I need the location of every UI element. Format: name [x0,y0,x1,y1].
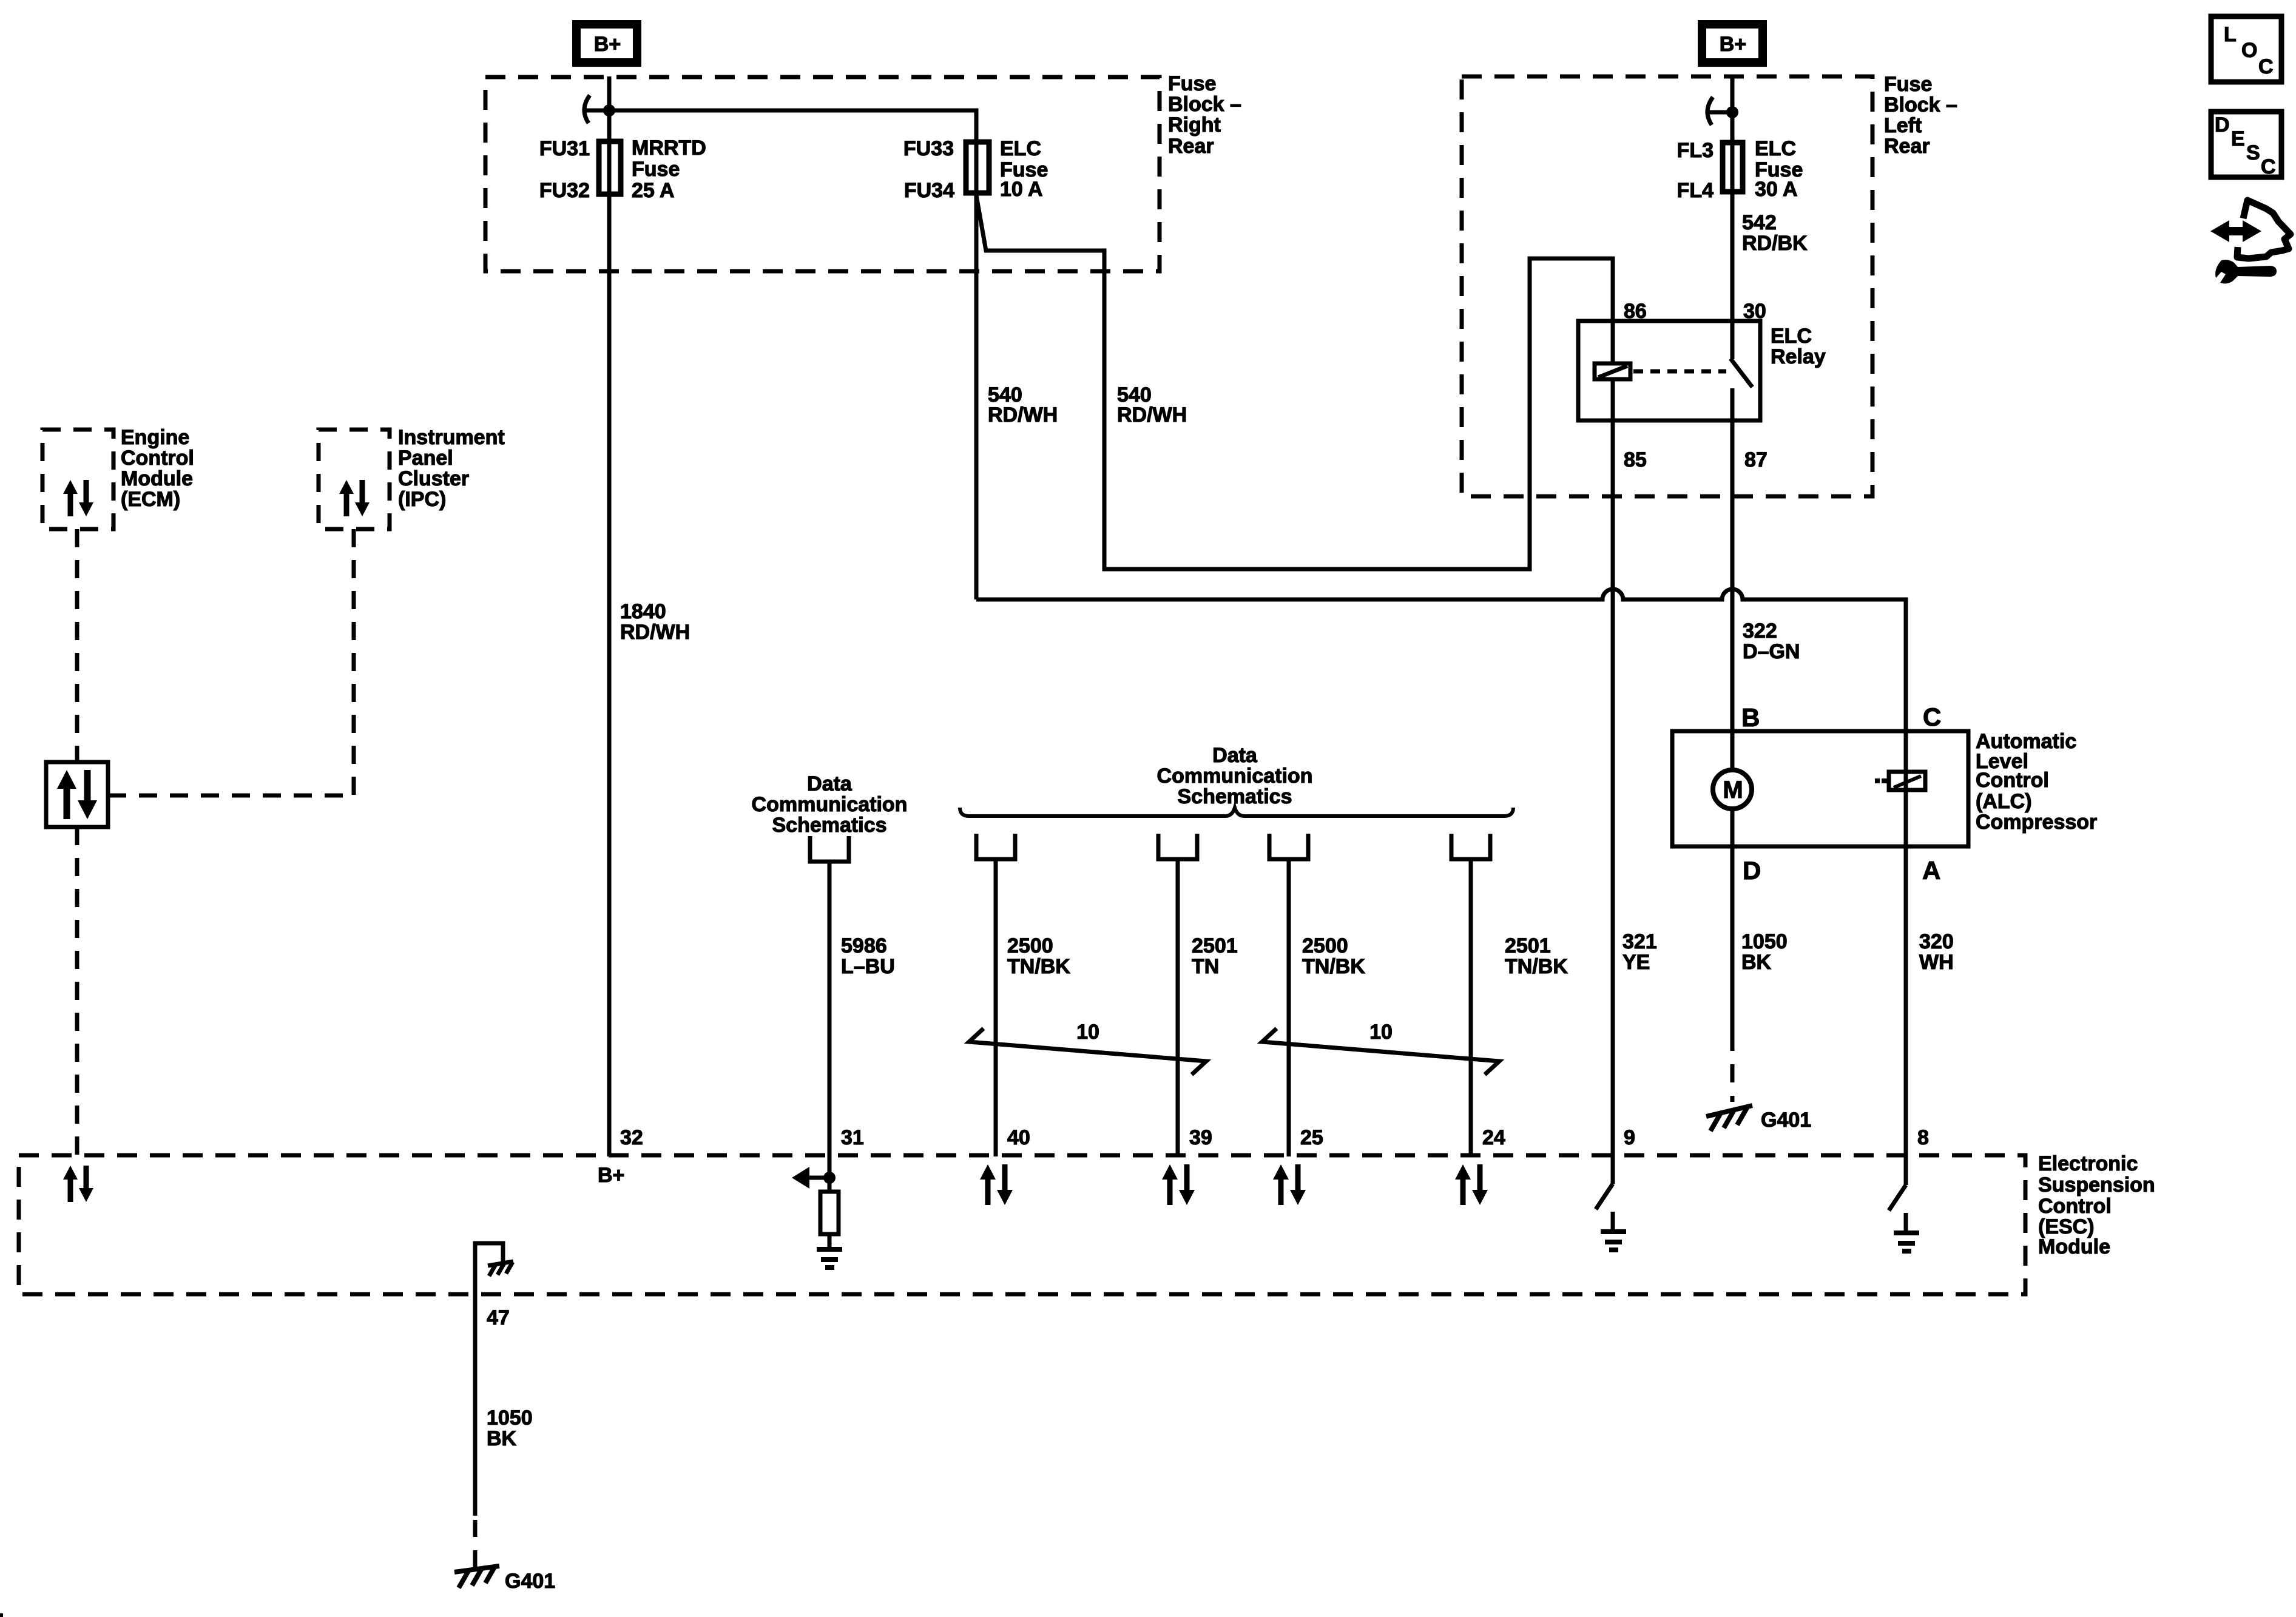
ESC module dashed box [19,1155,2025,1294]
svg-text:B+: B+ [1720,33,1746,56]
svg-text:G401: G401 [505,1570,555,1593]
label: Instrument Panel Cluster (IPC) [398,426,505,511]
svg-text:542: 542 [1742,211,1777,234]
svg-text:RD/WH: RD/WH [1117,403,1187,427]
svg-text:2500: 2500 [1007,934,1053,957]
dashed wire: IPC down [352,529,356,795]
wire: branch from splice to FU33 [609,110,976,141]
svg-text:BK: BK [1741,951,1772,974]
switch to ground at pin 8 [1889,1185,1919,1251]
svg-text:Block –: Block – [1168,93,1241,116]
off-page connector wire 24 [1451,834,1490,859]
svg-text:Suspension: Suspension [2038,1173,2155,1197]
bus marker 10 wires (left) [969,1021,1206,1075]
svg-text:Instrument: Instrument [398,426,505,449]
svg-text:Panel: Panel [398,447,453,470]
svg-text:FU32: FU32 [539,179,590,202]
motor M inside compressor [1713,770,1752,809]
off-page connector wire 40 [976,834,1015,859]
wire: 320 WH from solenoid A down to ESC pin 8 [1904,792,1908,1185]
scan speck bottom-left corner [0,1613,3,1617]
svg-text:B+: B+ [594,33,621,56]
svg-text:Control: Control [1976,769,2049,792]
serial data arrows inside ESC at pin 40 [980,1164,1013,1205]
svg-text:FL4: FL4 [1677,179,1714,202]
label: Fuse Block - Left Rear [1884,73,1957,158]
label: 2500 TN/BK (2nd) [1302,934,1365,978]
svg-text:47: 47 [487,1306,510,1329]
svg-text:Rear: Rear [1168,135,1214,158]
wire: 322 D-GN from relay 87 down to compressor pin B [1730,388,1735,769]
wire: 321 YE from relay 85 down to ESC pin 9 [1611,420,1615,1184]
label: 322 D-GN [1743,619,1800,663]
relay switch blade 30-87 [1730,359,1752,387]
svg-text:Right: Right [1168,113,1221,137]
serial data junction node box [46,762,108,827]
fuse FU31/FU32 MRRTD Fuse 25 A [539,137,706,202]
serial data arrows inside ESC at pin 25 [1273,1164,1306,1205]
serial data arrows inside ESC at pin 24 [1455,1164,1488,1205]
IPC dashed box [319,430,390,529]
svg-text:L: L [2224,23,2237,46]
svg-text:1050: 1050 [487,1406,533,1430]
svg-text:25 A: 25 A [632,179,675,202]
label: Automatic Level Control (ALC) Compressor [1976,730,2097,834]
dashed wire: ECM to junction node [75,529,79,762]
svg-text:TN/BK: TN/BK [1505,955,1568,978]
svg-text:L–BU: L–BU [841,955,895,978]
wire: 540 RD/WH branch from FU34 to relay coil 86 [976,195,1613,569]
serial data arrows in ECM [63,480,93,516]
svg-text:D: D [2215,113,2230,137]
wire: 540 RD/WH from FU34 straight down to long horizontal [974,195,979,599]
dashed wire: horizontal into junction node [108,794,354,798]
svg-text:9: 9 [1624,1126,1635,1149]
label: 540 RD/WH (left) [988,383,1058,427]
switch to ground at pin 9 [1596,1184,1626,1250]
label: Data Communication Schematics (left) [752,772,908,837]
svg-text:10: 10 [1369,1021,1393,1044]
svg-text:2501: 2501 [1192,934,1238,957]
ECM dashed box [42,430,113,529]
brace over data communication wires [960,808,1513,816]
svg-text:Fuse: Fuse [1884,73,1932,96]
svg-text:25: 25 [1300,1126,1323,1149]
label: Engine Control Module (ECM) [121,426,194,511]
power symbol B+ (right battery feed) [1702,24,1763,62]
svg-text:O: O [2241,39,2257,62]
svg-text:10 A: 10 A [1000,178,1043,201]
svg-text:8: 8 [1917,1126,1929,1149]
svg-text:31: 31 [841,1126,864,1149]
bus marker 10 wires (right) [1262,1021,1499,1075]
resistor inside ESC on pin 31 [820,1192,839,1247]
svg-text:ELC: ELC [1771,325,1812,348]
label: 540 RD/WH (right) [1117,383,1187,427]
svg-text:FL3: FL3 [1677,139,1714,162]
relay coil [1595,321,1630,420]
svg-text:322: 322 [1743,619,1777,643]
svg-text:10: 10 [1076,1021,1099,1044]
svg-text:G401: G401 [1761,1109,1811,1132]
wire: 1050 BK from motor D to ground G401 [1730,809,1735,1102]
svg-text:B+: B+ [598,1164,624,1187]
wire: left B+ down to fuse FU31 [607,76,612,141]
wire: long horizontal 540 RD/WH to compressor pin C with hops [976,589,1906,772]
svg-text:RD/WH: RD/WH [620,621,690,644]
svg-text:30: 30 [1743,300,1766,323]
label: 1840 RD/WH [620,600,690,644]
svg-text:M: M [1723,777,1743,803]
svg-text:FU31: FU31 [539,137,590,160]
off-page connector for wire 31 [810,836,849,862]
svg-text:Relay: Relay [1771,345,1826,368]
svg-text:RD/BK: RD/BK [1742,232,1808,255]
svg-text:ELC: ELC [1755,137,1796,160]
internal chassis ground at pin 47 [475,1243,513,1294]
solenoid inside compressor [1875,769,1925,792]
ground G401 at compressor [1706,1106,1811,1132]
svg-text:1840: 1840 [620,600,666,623]
off-page connector wire 25 [1269,834,1308,859]
svg-text:FU34: FU34 [904,179,954,202]
bus output arrow at pin 31 [792,1167,836,1189]
svg-text:ELC: ELC [1000,137,1041,160]
svg-text:40: 40 [1007,1126,1030,1149]
splice symbol at right B+ feed [1707,97,1738,125]
wire: 1840 RD/WH from FU32 down to ESC pin 32 [607,197,612,1156]
splice symbol at left B+ feed [584,95,615,123]
fuse FL3/FL4 ELC Fuse 30 A [1677,137,1803,202]
fuse FU33/FU34 ELC Fuse 10 A [903,137,1048,202]
label: 2501 TN [1192,934,1238,978]
power symbol B+ (left battery feed) [576,24,637,62]
svg-text:85: 85 [1624,448,1647,471]
svg-text:MRRTD: MRRTD [632,137,706,160]
serial data arrows inside ESC at ECM wire [63,1166,93,1202]
svg-text:Block –: Block – [1884,93,1957,116]
svg-text:Module: Module [2038,1235,2110,1258]
svg-text:Module: Module [121,467,193,490]
svg-text:1050: 1050 [1741,930,1788,953]
label: 321 YE [1622,930,1657,974]
serial data arrows in IPC [339,480,370,516]
svg-text:2501: 2501 [1505,934,1551,957]
svg-text:A: A [1922,856,1940,885]
svg-text:BK: BK [487,1427,517,1450]
label: 320 WH [1919,930,1954,974]
wire: 5986 L-BU down to ESC pin 31 [828,862,832,1192]
svg-text:39: 39 [1189,1126,1212,1149]
svg-text:Data: Data [807,772,853,795]
svg-text:320: 320 [1919,930,1954,953]
relay actuating dashed link [1633,370,1726,374]
svg-text:Communication: Communication [1157,765,1313,788]
ground (internal) under resistor [817,1249,842,1268]
label: 5986 L-BU [841,934,895,978]
svg-text:E: E [2231,127,2245,150]
fuse block right rear dashed box [485,77,1160,271]
svg-text:Rear: Rear [1884,135,1930,158]
svg-text:321: 321 [1622,930,1657,953]
wire: 2500 TN/BK to ESC pin 25 [1287,859,1291,1156]
svg-text:24: 24 [1482,1126,1505,1149]
svg-text:86: 86 [1624,300,1647,323]
label: 2500 TN/BK [1007,934,1070,978]
svg-text:Data: Data [1212,744,1258,767]
svg-text:C: C [1923,703,1941,731]
svg-text:32: 32 [620,1126,643,1149]
wire: right B+ down to fuse FL3 [1730,76,1735,143]
svg-text:S: S [2246,141,2260,164]
wire: 2501 TN to ESC pin 39 [1176,859,1180,1156]
svg-text:FU33: FU33 [903,137,954,160]
svg-text:Compressor: Compressor [1976,811,2097,834]
svg-text:87: 87 [1744,448,1768,471]
svg-text:Control: Control [2038,1195,2112,1218]
svg-text:B: B [1741,703,1760,732]
LOC reference box [2211,16,2281,82]
label: 2501 TN/BK [1505,934,1568,978]
svg-text:Fuse: Fuse [632,158,680,181]
svg-text:(ECM): (ECM) [121,488,180,511]
label: ELC Relay [1771,325,1826,368]
svg-text:2500: 2500 [1302,934,1348,957]
label: Electronic Suspension Control (ESC) Module [2038,1152,2155,1258]
service icon: double arrow, outline, wrench [2210,200,2291,283]
svg-text:Schematics: Schematics [772,814,887,837]
svg-text:5986: 5986 [841,934,887,957]
wire: 2501 TN/BK to ESC pin 24 [1469,859,1473,1156]
ground G401 (bottom) [454,1566,555,1593]
svg-text:(IPC): (IPC) [398,488,446,511]
svg-text:(ALC): (ALC) [1976,790,2032,813]
ALC compressor box [1672,731,1968,846]
wire: 1050 BK from ESC pin 47 to G401 [473,1294,478,1569]
off-page connector wire 39 [1158,834,1197,859]
serial data arrows inside ESC at pin 39 [1162,1164,1195,1205]
svg-text:C: C [2261,155,2276,178]
svg-text:D: D [1743,856,1761,885]
svg-text:TN/BK: TN/BK [1007,955,1070,978]
wire: 2500 TN/BK to ESC pin 40 [994,859,998,1156]
svg-text:30 A: 30 A [1755,178,1798,201]
svg-text:WH: WH [1919,951,1954,974]
DESC reference box [2211,112,2281,178]
label: 542 RD/BK [1742,211,1808,255]
svg-text:Left: Left [1884,114,1922,137]
svg-text:C: C [2258,55,2274,78]
svg-text:TN: TN [1192,955,1219,978]
svg-text:Electronic: Electronic [2038,1152,2138,1175]
fuse block left rear dashed box [1462,76,1872,496]
svg-text:Communication: Communication [752,793,908,816]
svg-text:D–GN: D–GN [1743,640,1800,663]
label: Fuse Block - Right Rear [1168,72,1241,158]
svg-text:Cluster: Cluster [398,467,469,490]
svg-text:TN/BK: TN/BK [1302,955,1365,978]
svg-text:YE: YE [1622,951,1650,974]
label: Data Communication Schematics (center) [1157,744,1313,808]
svg-text:Fuse: Fuse [1168,72,1216,95]
svg-text:Engine: Engine [121,426,189,449]
label: 1050 BK (compressor) [1741,930,1788,974]
wire: 542 RD/BK from FL4 to relay pin 30 [1730,194,1735,359]
label: 1050 BK (pin 47) [487,1406,533,1450]
svg-text:RD/WH: RD/WH [988,403,1058,427]
svg-text:Control: Control [121,447,194,470]
dashed wire: junction node down to ESC [75,827,79,1155]
relay ELC Relay box [1578,321,1760,420]
